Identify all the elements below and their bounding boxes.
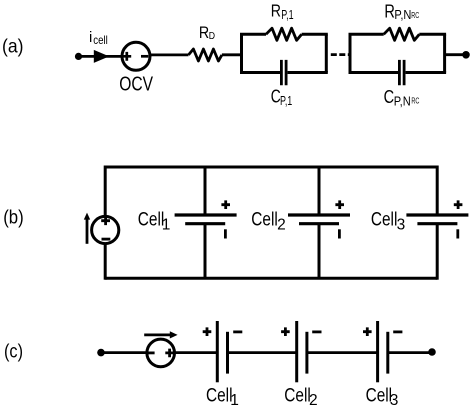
wire: bottom rail of (b)	[105, 277, 437, 280]
capacitor CP1 plates	[281, 60, 286, 85]
svg-text:D: D	[209, 30, 216, 42]
label Cell1 (c)	[206, 385, 239, 408]
label RP,1	[271, 1, 294, 22]
cell 3 battery short plate	[417, 222, 457, 225]
svg-text:R: R	[384, 2, 395, 22]
minus label cell 3 (b)	[456, 229, 459, 238]
svg-text:RC: RC	[411, 96, 419, 105]
label CP,NRC	[384, 87, 420, 109]
current source circle in (c)	[147, 339, 175, 367]
wire: cell 1 to cell 2 (c)	[228, 351, 297, 354]
wire: left terminal to source (c)	[101, 351, 147, 354]
svg-text:RC: RC	[411, 11, 419, 20]
minus label cell 2 (c)	[312, 330, 321, 333]
label RD	[199, 24, 216, 42]
RC block 1: right edge	[325, 34, 328, 72]
minus label cell 2 (b)	[338, 229, 341, 238]
resistor RD	[189, 49, 222, 61]
plus label cell 2 (c)	[281, 327, 290, 336]
wire: OCV to RD	[151, 54, 189, 57]
node: left terminal of (a)	[75, 53, 82, 60]
svg-text:R: R	[271, 1, 281, 21]
RC block 1: bottom edge segments	[240, 71, 328, 74]
label CP,1	[271, 86, 293, 107]
wire: cell 3 branch lower segment (right edge)	[436, 225, 439, 280]
node: right terminal of (a)	[462, 51, 470, 59]
node: left terminal of (c)	[97, 349, 105, 357]
label Cell3 (c)	[366, 385, 399, 408]
RC block 1: left edge	[240, 34, 243, 72]
cell 2 battery long plate	[288, 213, 350, 216]
minus label cell 1 (c)	[233, 330, 242, 333]
cell 1 battery short plate	[185, 222, 225, 225]
current source I1 circle in (b)	[92, 216, 119, 243]
node: right terminal of (c)	[428, 348, 436, 356]
wire: left edge upper segment of (b)	[104, 166, 107, 216]
capacitor CP,N plates	[399, 60, 404, 85]
plus sign inside source (b)	[101, 216, 110, 225]
cell 2 battery long plate (c)	[295, 321, 298, 382]
current direction arrow in (b)	[86, 219, 89, 244]
svg-text:Cell: Cell	[284, 385, 311, 407]
svg-text:3: 3	[397, 216, 406, 233]
svg-text:i: i	[89, 29, 92, 46]
svg-text:P,1: P,1	[281, 7, 293, 22]
plus label cell 1 (c)	[203, 327, 212, 336]
label Cell2 (c)	[284, 385, 317, 408]
svg-text:(c): (c)	[4, 341, 23, 363]
wire: left terminal to OCV	[79, 55, 123, 58]
cell 2 battery short plate (c)	[305, 332, 308, 374]
plus label cell 1 (b)	[221, 200, 230, 209]
svg-text:(b): (b)	[3, 208, 24, 229]
dashed wire between RC blocks	[331, 53, 350, 56]
plus sign inside source (c)	[165, 349, 174, 358]
svg-text:2: 2	[309, 392, 318, 408]
wire: source to cell 1 (c)	[175, 351, 218, 354]
cell 1 battery short plate (c)	[226, 332, 229, 374]
label Cell3 (b)	[371, 209, 405, 234]
minus label cell 3 (c)	[393, 330, 402, 333]
label Cell2 (b)	[251, 209, 285, 234]
cell 3 battery short plate (c)	[386, 332, 389, 374]
svg-text:OCV: OCV	[119, 73, 153, 96]
svg-text:R: R	[199, 24, 209, 42]
wire: RC block N to right terminal	[445, 53, 466, 56]
svg-text:(a): (a)	[2, 36, 24, 58]
wire: cell 2 branch upper segment	[318, 167, 321, 214]
current arrow i_cell	[94, 50, 109, 63]
wire: cell 3 to right terminal (c)	[388, 351, 432, 354]
wire: left edge lower segment of (b)	[104, 245, 107, 280]
wire: cell 1 branch lower segment	[204, 225, 207, 279]
wire: top rail of (b)	[105, 166, 437, 169]
minus sign inside source (b)	[102, 238, 111, 241]
svg-text:P,N: P,N	[394, 7, 411, 22]
svg-text:Cell: Cell	[206, 385, 233, 407]
svg-text:C: C	[384, 87, 395, 107]
cell 1 battery long plate	[175, 213, 237, 216]
minus sign inside OCV	[141, 55, 148, 58]
cell 3 battery long plate	[406, 213, 468, 216]
svg-text:P,1: P,1	[280, 93, 292, 108]
svg-text:1: 1	[230, 392, 239, 408]
cell 1 battery long plate (c)	[216, 321, 219, 382]
current direction arrow in (c)	[144, 333, 171, 336]
svg-text:Cell: Cell	[138, 209, 165, 231]
wire: cell 2 to cell 3 (c)	[307, 351, 378, 354]
resistor RP,N zigzag	[384, 28, 420, 40]
plus label cell 3 (c)	[363, 327, 372, 336]
minus label cell 1 (b)	[224, 229, 227, 238]
cell 3 battery long plate (c)	[376, 321, 379, 382]
RC block N: left edge	[349, 34, 352, 72]
RC block N: bottom edge segments	[349, 71, 447, 74]
RC block 1: top edge segments	[240, 33, 328, 36]
RC block N: top edge segments	[349, 33, 447, 36]
RC block N: right edge	[443, 34, 446, 72]
svg-text:Cell: Cell	[371, 209, 398, 231]
svg-text:cell: cell	[93, 33, 108, 47]
voltage source OCV circle U1	[122, 42, 150, 70]
svg-text:3: 3	[390, 392, 399, 408]
svg-text:Cell: Cell	[251, 209, 277, 231]
plus sign inside OCV	[122, 52, 131, 61]
cell 2 battery short plate	[299, 222, 339, 225]
plus label cell 3 (b)	[454, 200, 463, 209]
svg-text:P,N: P,N	[394, 94, 411, 109]
minus sign inside source (c)	[148, 351, 155, 354]
label RP,NRC	[384, 2, 419, 22]
label i_cell	[89, 29, 108, 47]
wire: RD to RC block 1	[222, 53, 242, 56]
plus label cell 2 (b)	[335, 200, 344, 209]
wire: cell 1 branch upper segment	[204, 167, 207, 214]
label Cell1 (b)	[138, 209, 171, 234]
svg-text:Cell: Cell	[366, 385, 393, 407]
resistor RP1 zigzag	[266, 28, 302, 40]
wire: cell 2 branch lower segment	[318, 225, 321, 279]
svg-text:1: 1	[162, 216, 171, 233]
wire: cell 3 branch upper segment (right edge)	[436, 166, 439, 214]
svg-text:2: 2	[277, 216, 286, 233]
